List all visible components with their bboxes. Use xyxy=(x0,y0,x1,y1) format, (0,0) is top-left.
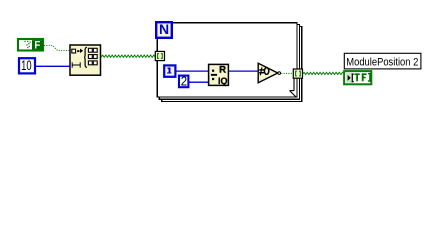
wire: Not-Equal-0 to output tunnel (green dotted boolean) xyxy=(281,72,293,74)
for-loop back frame (stack layer 2) xyxy=(162,27,302,102)
loop iteration terminal i xyxy=(164,65,175,77)
Initialize Array function U1 xyxy=(70,45,101,75)
wire: 10 to Initialize Array (blue) xyxy=(36,65,70,67)
for-loop page curl (bottom-right) xyxy=(290,78,296,97)
svg-text:10: 10 xyxy=(21,58,32,73)
wire: 2 to Quotient/Remainder (blue) xyxy=(189,81,209,83)
boolean array indicator terminal TF xyxy=(344,71,371,84)
svg-text:F: F xyxy=(34,39,40,51)
svg-text:2: 2 xyxy=(181,74,187,89)
Not Equal To 0? comparison xyxy=(258,63,280,83)
wire: Initialize Array to loop tunnel (green zigzag boolean array) xyxy=(101,55,156,57)
svg-text:R: R xyxy=(219,65,226,76)
wire: i to Quotient/Remainder (blue) xyxy=(176,70,209,72)
numeric constant 2 xyxy=(179,74,188,89)
Quotient &amp; Remainder function xyxy=(209,64,229,85)
boolean constant F xyxy=(18,39,43,51)
numeric constant 10 xyxy=(19,58,35,74)
svg-text:IQ: IQ xyxy=(218,76,228,86)
for-loop front frame xyxy=(157,23,297,97)
label ModulePosition 2 xyxy=(344,53,421,69)
svg-text:ModulePosition 2: ModulePosition 2 xyxy=(346,57,418,69)
loop input tunnel (auto-index) xyxy=(155,51,164,60)
loop count terminal N xyxy=(156,21,172,38)
loop output tunnel (auto-index) xyxy=(293,69,302,78)
wire: Quotient/Remainder to Not-Equal-0 (blue) xyxy=(228,70,258,72)
wire: boolean constant to Initialize Array (green dotted) xyxy=(44,46,70,51)
for-loop middle frame (stack layer 1) xyxy=(159,25,299,100)
svg-text:N: N xyxy=(159,21,169,37)
wire: output tunnel to indicator (green zigzag boolean array) xyxy=(303,72,344,74)
